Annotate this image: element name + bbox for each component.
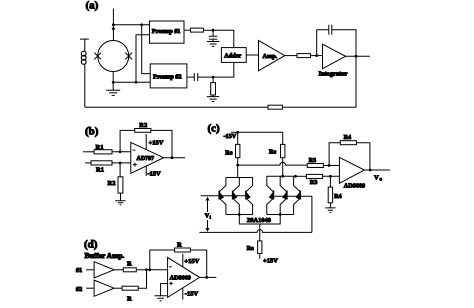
svg-text:(c): (c) xyxy=(208,123,221,135)
resistor R4 to ground xyxy=(329,176,331,187)
wire SQUID top to Preamp #1 input xyxy=(113,24,149,26)
Josephson junction X right xyxy=(125,53,132,60)
svg-text:+15V: +15V xyxy=(149,139,164,146)
svg-text:R1: R1 xyxy=(96,144,104,151)
ground capacitor 1 xyxy=(207,42,219,47)
wire amp output xyxy=(285,55,297,57)
resistor R2 to ground xyxy=(119,163,121,177)
resistor feedback Rf xyxy=(268,105,282,109)
svg-text:Re: Re xyxy=(269,149,276,156)
wire Preamp #1 output xyxy=(184,29,191,31)
svg-text:R: R xyxy=(127,296,132,303)
PART B xyxy=(83,122,185,205)
svg-text:#2: #2 xyxy=(76,286,82,293)
op-amp U5 AD8009 xyxy=(339,157,364,183)
wire feedback down xyxy=(282,56,356,107)
node inverting xyxy=(119,150,122,153)
node rail left Rc xyxy=(236,131,239,134)
node non-inverting xyxy=(119,162,122,165)
PART D xyxy=(76,239,216,303)
adder U3 box xyxy=(221,48,246,63)
svg-text:R3: R3 xyxy=(309,157,317,164)
Josephson junction X left xyxy=(94,53,101,60)
svg-text:-15V: -15V xyxy=(185,291,199,298)
op-amp U6 AD8009 xyxy=(168,257,200,297)
wire Re to +15V xyxy=(259,254,261,259)
buffer B2 xyxy=(94,280,114,296)
node output feedback xyxy=(205,276,208,279)
svg-text:+15V: +15V xyxy=(263,257,278,264)
svg-text:Preamp #1: Preamp #1 xyxy=(152,28,181,35)
resistor to ground (channel 2) xyxy=(212,77,214,83)
minus sign xyxy=(133,149,136,151)
wire left base line xyxy=(201,195,246,197)
wire emitter join xyxy=(239,215,280,225)
input arrow Vi xyxy=(207,199,209,230)
node filter 2 xyxy=(212,76,215,79)
transistor Q3 xyxy=(245,191,247,200)
wire SQUID bottom to Preamp #2 lower input xyxy=(113,81,150,83)
capacitor to ground (channel 1) xyxy=(209,30,217,41)
node output xyxy=(171,156,174,159)
wire feedback up xyxy=(120,130,135,151)
resistor R feedback xyxy=(175,248,191,252)
svg-text:Buffer Amp.: Buffer Amp. xyxy=(85,251,125,260)
svg-text:R2: R2 xyxy=(108,180,116,187)
wire to integrator xyxy=(311,55,323,57)
capacitor integrator feedback xyxy=(317,25,356,57)
ground resistor 2 xyxy=(207,97,219,102)
wire R3 lower to op-amp xyxy=(323,175,340,177)
preamp U2 box xyxy=(150,64,187,88)
svg-text:-15V: -15V xyxy=(224,133,237,140)
svg-text:AD797: AD797 xyxy=(137,156,155,162)
svg-text:Integrator: Integrator xyxy=(319,71,348,78)
wire output Vo xyxy=(364,169,390,171)
svg-text:i: i xyxy=(210,215,212,220)
svg-text:+15V: +15V xyxy=(184,258,199,265)
op-amp Amp xyxy=(259,40,285,70)
resistor R (ch2) xyxy=(122,286,138,290)
wire right bus to lower R3 xyxy=(294,175,307,177)
node filter 1 xyxy=(212,29,215,32)
svg-text:AD8009: AD8009 xyxy=(170,275,191,282)
ground R4 xyxy=(325,208,335,213)
svg-text:R4: R4 xyxy=(334,193,342,200)
resistor R3 upper xyxy=(307,164,323,168)
wire R3 upper to op-amp xyxy=(323,165,339,167)
wire output xyxy=(164,157,185,159)
power pin -15V xyxy=(145,166,147,176)
resistor R2 feedback xyxy=(135,129,151,133)
resistor Rc left xyxy=(237,132,239,144)
svg-text:2SA1048: 2SA1048 xyxy=(247,217,271,224)
svg-text:V: V xyxy=(374,174,379,181)
node summing xyxy=(145,268,148,271)
wire integrator output xyxy=(346,55,370,57)
node output xyxy=(369,169,372,172)
svg-text:-15V: -15V xyxy=(147,171,161,178)
svg-text:Re: Re xyxy=(247,245,254,252)
wire feedback to output xyxy=(151,130,172,157)
wire right collector bus xyxy=(267,175,294,177)
svg-text:R: R xyxy=(127,260,132,267)
node Rc right joins bus xyxy=(281,175,284,178)
node bus tap xyxy=(294,175,297,178)
wire feedback up xyxy=(150,250,175,270)
wire lower tap up to Preamp #1 second input xyxy=(136,35,150,83)
wire left emitter bus xyxy=(226,214,253,216)
capacitor series (channel 2) xyxy=(194,73,197,81)
wire coil top lead xyxy=(84,39,86,51)
svg-text:R2: R2 xyxy=(139,122,147,129)
power pin +15V xyxy=(182,254,184,267)
wire right emitter bus xyxy=(267,214,294,216)
wire feedback to coil xyxy=(85,106,268,108)
svg-text:Re: Re xyxy=(225,149,232,156)
bias current arrow xyxy=(112,28,116,32)
transistor Q5 xyxy=(286,191,288,200)
wire common emitter to Re xyxy=(259,224,261,241)
svg-text:R1: R1 xyxy=(96,167,104,174)
wire output xyxy=(200,276,217,278)
wire adder to amp xyxy=(246,54,258,56)
wire feedback up xyxy=(329,143,340,166)
wire feedback to output xyxy=(356,143,370,170)
wire ch2 to summing node xyxy=(138,270,146,288)
wire -15V supply rail xyxy=(231,131,283,133)
wire B1 out xyxy=(114,269,123,271)
wire tap down to Preamp #2 top input xyxy=(142,25,151,74)
transistor Q2 xyxy=(232,191,234,200)
wire Preamp #2 output xyxy=(187,76,194,78)
resistor R (ch1) xyxy=(123,268,136,272)
power pin -15V xyxy=(182,288,184,300)
inductor L1 (input coil) xyxy=(81,51,86,64)
resistor Rc right xyxy=(282,132,284,144)
transistor Q1 xyxy=(218,191,220,200)
svg-text:R4: R4 xyxy=(344,134,352,141)
resistor Re tail xyxy=(258,241,262,254)
wire left collector bus xyxy=(226,177,253,179)
wire non-inverting to ground xyxy=(161,284,168,296)
node right emitter tap xyxy=(279,213,282,216)
svg-text:AD8009: AD8009 xyxy=(344,182,365,189)
wire right base line xyxy=(273,196,312,232)
wire to adder top branch xyxy=(203,30,233,47)
preamp U1 box xyxy=(150,21,185,43)
svg-text:Adder: Adder xyxy=(224,53,241,60)
node integrator output xyxy=(355,55,358,58)
minus sign xyxy=(169,266,172,268)
wire Rc right to collector bus (crosses upper line) xyxy=(282,158,284,177)
resistor R1 top xyxy=(94,150,112,154)
pickup coil terminal bar xyxy=(80,38,89,40)
wire B2 out xyxy=(114,287,122,289)
wire non-inverting input xyxy=(85,162,91,164)
node SQUID bottom junction xyxy=(112,81,115,84)
wire to adder bottom branch xyxy=(198,62,234,77)
wire left collector to R3 with hopover xyxy=(238,162,308,165)
op-amp Integrator xyxy=(323,44,346,68)
node lower tap xyxy=(135,81,138,84)
op-amp U4 AD797 xyxy=(131,142,164,173)
transistor Q6 xyxy=(299,191,301,200)
resistor R1 bottom xyxy=(91,161,112,165)
svg-text:Amp.: Amp. xyxy=(263,53,278,60)
svg-text:(b): (b) xyxy=(85,126,99,138)
resistor R3 lower xyxy=(306,174,322,178)
node non-inverting input xyxy=(329,175,332,178)
ground SQUID xyxy=(106,90,120,95)
wire Rc left to collector bus xyxy=(237,158,239,178)
plus sign xyxy=(169,282,173,286)
wire right bases return line with hopover xyxy=(199,230,312,233)
wire R1b to op-amp xyxy=(112,162,131,164)
svg-text:R3: R3 xyxy=(310,179,318,186)
wire inverting input xyxy=(83,151,94,153)
power pin +15V xyxy=(145,134,147,150)
ground R2 xyxy=(115,201,125,205)
buffer B1 xyxy=(94,262,114,278)
node left collector xyxy=(236,164,239,167)
ground non-inverting xyxy=(154,296,166,301)
wire bias line xyxy=(112,9,114,41)
node left emitter tap xyxy=(238,213,241,216)
svg-text:#1: #1 xyxy=(76,267,82,274)
wire feedback to output xyxy=(190,250,206,277)
svg-text:(d): (d) xyxy=(84,239,98,251)
svg-text:o: o xyxy=(380,178,383,183)
wire coil bottom lead to feedback line xyxy=(84,64,86,107)
resistor integrator input xyxy=(297,54,311,58)
plus sign xyxy=(133,163,137,167)
node integrator input xyxy=(315,54,318,57)
transistor Q4 xyxy=(272,191,274,200)
PART C xyxy=(199,123,390,265)
svg-text:Preamp #2: Preamp #2 xyxy=(153,73,182,80)
svg-text:R: R xyxy=(177,242,182,249)
wire to op-amp inverting xyxy=(136,269,167,271)
resistor R4 feedback xyxy=(340,141,356,145)
wire SQUID bottom lead xyxy=(112,72,114,91)
node tap to Preamp #2 xyxy=(140,23,143,26)
resistor after Preamp #1 xyxy=(191,28,204,32)
node bias junction xyxy=(112,23,115,26)
wire R1 to op-amp xyxy=(112,151,131,153)
PART A xyxy=(80,0,370,109)
node inverting input xyxy=(328,164,331,167)
svg-text:(a): (a) xyxy=(86,0,99,11)
SQUID sensor body xyxy=(98,41,129,72)
